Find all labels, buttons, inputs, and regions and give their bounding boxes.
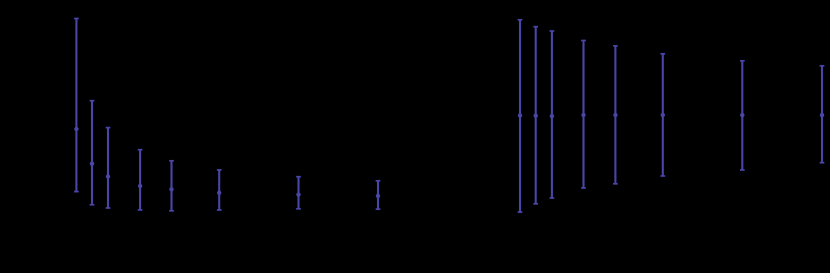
error bar R5 (N=7): [613, 46, 618, 184]
marker R6 (N=10): [661, 113, 665, 117]
top cap L8 (N=20): [376, 180, 381, 182]
marker L5 (N=7): [169, 187, 173, 191]
top cap R6 (N=10): [660, 53, 665, 55]
left panel: decreasing error bars: [74, 19, 380, 211]
bottom cap R6 (N=10): [660, 175, 665, 177]
bottom cap R8 (N=20): [820, 162, 825, 164]
error bar L2 (N=2): [90, 101, 95, 205]
marker L3 (N=3): [106, 174, 110, 178]
top cap R5 (N=7): [613, 45, 618, 47]
wire: vertical error line L1 (N=1): [75, 19, 77, 192]
top cap R4 (N=5): [581, 40, 586, 42]
top cap R2 (N=2): [533, 26, 538, 28]
error bar R7 (N=15): [740, 61, 745, 170]
top cap R7 (N=15): [740, 60, 745, 62]
wire: vertical error line R8 (N=20): [821, 66, 823, 163]
error bar R3 (N=3): [550, 31, 555, 198]
wire: vertical error line L3 (N=3): [107, 128, 109, 208]
bottom cap R4 (N=5): [581, 187, 586, 189]
marker R5 (N=7): [613, 113, 617, 117]
marker L4 (N=5): [138, 184, 142, 188]
top cap L7 (N=15): [296, 176, 301, 178]
right panel: constant-mean error bars: [518, 20, 825, 212]
top cap R8 (N=20): [820, 65, 825, 67]
error bar L1 (N=1): [74, 19, 79, 192]
wire: vertical error line R6 (N=10): [662, 54, 664, 176]
bottom cap L6 (N=10): [217, 209, 222, 211]
top cap R1 (N=1): [518, 19, 523, 21]
marker R3 (N=3): [550, 114, 554, 118]
top cap L1 (N=1): [74, 18, 79, 20]
wire: vertical error line L8 (N=20): [377, 181, 379, 209]
bottom cap L4 (N=5): [138, 209, 143, 211]
wire: vertical error line L4 (N=5): [139, 150, 141, 210]
error bar R6 (N=10): [660, 54, 665, 176]
bottom cap L1 (N=1): [74, 191, 79, 193]
bottom cap L2 (N=2): [90, 204, 95, 206]
marker R8 (N=20): [820, 113, 824, 117]
bottom cap R7 (N=15): [740, 169, 745, 171]
error bar L3 (N=3): [106, 128, 111, 208]
bottom cap L3 (N=3): [106, 207, 111, 209]
marker L1 (N=1): [74, 127, 78, 131]
error bar L7 (N=15): [296, 177, 301, 209]
error bar R2 (N=2): [533, 27, 538, 204]
top cap R3 (N=3): [550, 30, 555, 32]
wire: vertical error line R4 (N=5): [582, 41, 584, 189]
bottom cap R5 (N=7): [613, 183, 618, 185]
error bar R1 (N=1): [518, 20, 523, 212]
wire: vertical error line R3 (N=3): [551, 31, 553, 198]
marker L6 (N=10): [217, 191, 221, 195]
error bar R4 (N=5): [581, 41, 586, 189]
wire: vertical error line R7 (N=15): [741, 61, 743, 170]
bottom cap R3 (N=3): [550, 197, 555, 199]
marker L2 (N=2): [90, 162, 94, 166]
wire: vertical error line R2 (N=2): [535, 27, 537, 204]
top cap L5 (N=7): [169, 160, 174, 162]
wire: vertical error line R5 (N=7): [614, 46, 616, 184]
error bar L6 (N=10): [217, 170, 222, 210]
wire: vertical error line L6 (N=10): [218, 170, 220, 210]
bottom cap L5 (N=7): [169, 210, 174, 212]
marker L8 (N=20): [376, 194, 380, 198]
marker R4 (N=5): [581, 113, 585, 117]
marker R2 (N=2): [534, 114, 538, 118]
error bar L5 (N=7): [169, 161, 174, 211]
top cap L6 (N=10): [217, 169, 222, 171]
wire: vertical error line L7 (N=15): [297, 177, 299, 209]
error bar L8 (N=20): [376, 181, 381, 209]
wire: vertical error line R1 (N=1): [519, 20, 521, 212]
marker R7 (N=15): [740, 113, 744, 117]
error bar R8 (N=20): [820, 66, 825, 163]
bottom cap R2 (N=2): [533, 203, 538, 205]
bottom cap R1 (N=1): [518, 211, 523, 213]
bottom cap L7 (N=15): [296, 208, 301, 210]
marker L7 (N=15): [296, 192, 300, 196]
wire: vertical error line L5 (N=7): [170, 161, 172, 211]
top cap L3 (N=3): [106, 127, 111, 129]
error bar L4 (N=5): [138, 150, 143, 210]
wire: vertical error line L2 (N=2): [91, 101, 93, 205]
top cap L2 (N=2): [90, 100, 95, 102]
marker R1 (N=1): [518, 113, 522, 117]
top cap L4 (N=5): [138, 149, 143, 151]
bottom cap L8 (N=20): [376, 208, 381, 210]
